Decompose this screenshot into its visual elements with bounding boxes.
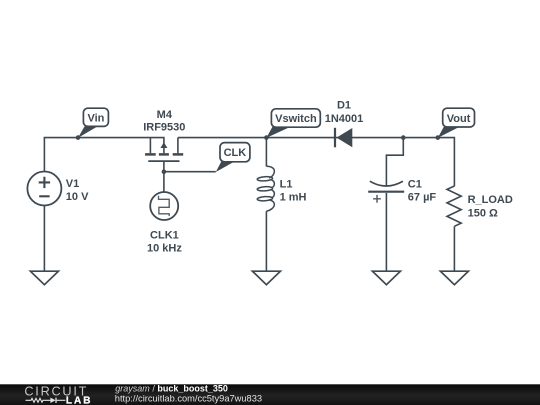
node C1 branch (junction dot) bbox=[401, 135, 406, 140]
svg-text:150 Ω: 150 Ω bbox=[468, 207, 498, 219]
svg-text:10 V: 10 V bbox=[66, 191, 89, 203]
transistor M4 (P-MOSFET) bbox=[145, 138, 183, 162]
svg-text:Vout: Vout bbox=[447, 113, 471, 125]
voltage source V1 bbox=[27, 172, 61, 206]
wire: gate node down to CLK1 source bbox=[163, 172, 165, 193]
wire: C1 branch jog down-left to capacitor bbox=[386, 138, 403, 186]
wire: M4 gate down to gate node bbox=[163, 162, 165, 172]
clock source CLK1 bbox=[150, 192, 178, 220]
net label Vin bbox=[78, 108, 108, 138]
inductor L1 bbox=[257, 166, 274, 211]
node Vin (junction dot) bbox=[76, 135, 81, 140]
wire: M4 drain along top rail to corner above R_LOAD bbox=[178, 138, 455, 187]
ground (R_LOAD) bbox=[440, 271, 468, 285]
svg-text:R_LOAD: R_LOAD bbox=[468, 194, 513, 206]
wire: L1 to ground bbox=[265, 211, 267, 271]
capacitor C1 (polarized) bbox=[368, 181, 404, 203]
wire: R_LOAD to ground bbox=[453, 226, 455, 271]
wire: C1 to ground bbox=[385, 193, 387, 271]
node Vswitch (junction dot) bbox=[264, 135, 269, 140]
svg-text:Vin: Vin bbox=[87, 112, 104, 124]
resistor R_LOAD bbox=[447, 186, 461, 226]
svg-text:1 mH: 1 mH bbox=[280, 191, 307, 203]
svg-text:Vswitch: Vswitch bbox=[275, 113, 317, 125]
svg-text:CLK1: CLK1 bbox=[150, 229, 179, 241]
svg-text:http://circuitlab.com/cc5ty9a7: http://circuitlab.com/cc5ty9a7wu833 bbox=[115, 393, 262, 403]
wire: V1 plus terminal up to Vin rail, ending at M4 bulk stub bbox=[44, 138, 163, 172]
ground (C1) bbox=[372, 271, 400, 285]
wire: gate node to CLK flag anchor bbox=[164, 171, 216, 173]
footer bar bbox=[0, 384, 540, 405]
svg-text:10 kHz: 10 kHz bbox=[147, 242, 182, 254]
svg-text:V1: V1 bbox=[66, 178, 79, 190]
net label Vout bbox=[438, 108, 475, 138]
wire: Vswitch node down to L1 bbox=[265, 138, 267, 167]
CircuitLab logo wordmark bbox=[24, 385, 92, 405]
svg-text:1N4001: 1N4001 bbox=[325, 113, 364, 125]
diode D1 bbox=[335, 128, 352, 148]
svg-text:L1: L1 bbox=[280, 179, 293, 191]
svg-text:CLK: CLK bbox=[224, 147, 247, 159]
node M4 gate junction bbox=[162, 169, 167, 174]
svg-text:M4: M4 bbox=[157, 109, 173, 121]
svg-text:IRF9530: IRF9530 bbox=[143, 122, 185, 134]
node Vout (junction dot) bbox=[436, 135, 441, 140]
svg-text:graysam / buck_boost_350: graysam / buck_boost_350 bbox=[115, 383, 228, 393]
svg-text:LAB: LAB bbox=[66, 395, 93, 405]
net label CLK bbox=[216, 143, 250, 172]
ground (L1) bbox=[252, 271, 280, 285]
wire: V1 minus terminal to ground bbox=[43, 206, 45, 271]
svg-text:67 µF: 67 µF bbox=[408, 191, 437, 203]
svg-text:C1: C1 bbox=[408, 178, 422, 190]
svg-text:D1: D1 bbox=[337, 100, 351, 112]
ground (V1) bbox=[30, 271, 58, 285]
net label Vswitch bbox=[266, 109, 320, 138]
